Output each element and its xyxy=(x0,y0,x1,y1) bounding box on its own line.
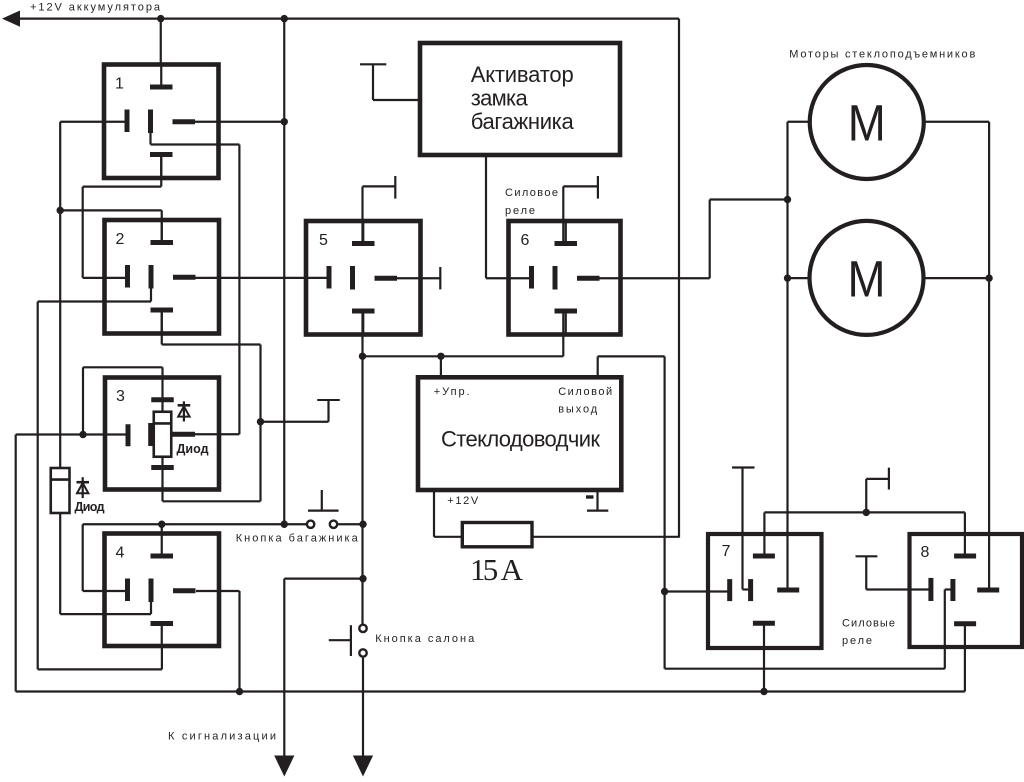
wire relay4 87a stub xyxy=(150,602,152,615)
svg-text:3: 3 xyxy=(116,388,125,405)
relay3 top pin bar xyxy=(151,378,174,400)
wire +12V top rail xyxy=(8,18,679,20)
svg-text:+Упр.: +Упр. xyxy=(434,386,470,398)
junction motor bus relay6 feed xyxy=(784,196,791,203)
wire relay5 coil- down to buttons and alarm xyxy=(361,310,363,624)
wire relay6 pin87 to motors xyxy=(600,200,788,279)
trunk button actuator xyxy=(308,490,339,511)
wire power output to relay7/8 xyxy=(598,356,951,668)
label К сигнализации xyxy=(168,731,276,743)
motor M2 xyxy=(810,221,924,335)
label Силовые реле xyxy=(842,618,895,648)
diode symbol inside relay 3 xyxy=(178,401,191,421)
junction relay4 coil+ xyxy=(158,521,165,528)
wire relay4 pin87 down to signal wire xyxy=(196,591,240,692)
relay5 right terminal xyxy=(397,267,440,289)
salon button contacts xyxy=(359,625,366,657)
wire relay6 coil- stem xyxy=(562,310,564,356)
svg-text:Стеклодоводчик: Стеклодоводчик xyxy=(441,427,600,452)
svg-text:Активатор: Активатор xyxy=(471,62,574,87)
wire relay3 pin30 horizontal xyxy=(16,433,128,435)
wire salon button down xyxy=(362,658,364,757)
wire left bus down from relay1 xyxy=(59,122,61,469)
relay7 top pin xyxy=(753,512,775,556)
junction relay3 left wire xyxy=(79,431,86,438)
junction relay5 coil- control net xyxy=(359,353,366,360)
wire motor left bus xyxy=(788,122,810,590)
junction power output relay7 pin xyxy=(661,588,668,595)
svg-text:6: 6 xyxy=(521,232,530,249)
wire fuse to +12V rail xyxy=(532,536,679,538)
svg-text:Силовое: Силовое xyxy=(505,187,558,199)
arrow to alarm 1 xyxy=(274,756,294,777)
svg-text:8: 8 xyxy=(921,544,930,561)
relay5 top terminal xyxy=(363,176,396,243)
junction control of power relays xyxy=(863,509,870,516)
svg-text:4: 4 xyxy=(116,545,125,562)
svg-text:Кнопка багажника: Кнопка багажника xyxy=(236,533,359,545)
svg-text:5: 5 xyxy=(319,232,328,249)
relay7 middle stub to terminal xyxy=(732,468,755,590)
svg-text:+12V аккумулятора: +12V аккумулятора xyxy=(30,2,161,14)
wire alarm drop 1 xyxy=(283,579,285,757)
svg-text:М: М xyxy=(848,95,886,152)
wire relay2 pin87 to relay5 pin30 xyxy=(196,277,330,279)
relay 7 xyxy=(708,534,822,648)
svg-text:Диод: Диод xyxy=(75,500,105,514)
label minus xyxy=(586,495,594,498)
label Моторы стеклоподъемников xyxy=(789,49,975,61)
relay 3 xyxy=(105,378,219,490)
label Кнопка салона xyxy=(375,633,475,645)
label Силовое реле xyxy=(505,187,558,217)
label Диод (D2) xyxy=(75,500,105,514)
salon button actuator xyxy=(329,625,351,656)
label +Упр. xyxy=(434,386,470,398)
wire +Upr stem xyxy=(440,356,442,378)
junction left bus to relay2 coil+ xyxy=(57,207,64,214)
svg-text:замка: замка xyxy=(471,86,529,111)
wire relay1 pin87 right to x284 xyxy=(195,121,284,123)
arrow to alarm 2 xyxy=(353,756,373,777)
relay6 top terminal xyxy=(563,176,598,243)
terminal feeding relay8 pin30 xyxy=(856,556,932,589)
wire long bottom net y691 xyxy=(16,690,965,692)
svg-text:7: 7 xyxy=(722,543,731,560)
relay8 left pin bar xyxy=(928,578,933,601)
junction terminal branch on relay2-relay3 wire xyxy=(257,418,264,425)
relay8 middle bar xyxy=(950,579,955,601)
relay3 bottom pin bar xyxy=(151,468,174,490)
svg-text:15 А: 15 А xyxy=(470,552,524,587)
junction relay1 pin87 at x284 xyxy=(281,118,288,125)
label Активатор замка багажника xyxy=(471,62,575,134)
terminal stub near trunk button xyxy=(261,400,340,422)
diode D2 symbol xyxy=(77,477,90,498)
svg-text:Силовые: Силовые xyxy=(842,618,895,630)
label Силовой выход xyxy=(558,386,612,416)
relay8 right pin xyxy=(977,588,999,593)
wire trunk-button feed / relay4 coil+ xyxy=(83,524,308,591)
trunk lock activator box xyxy=(420,43,620,155)
junction x284 line at trunk button xyxy=(281,521,288,528)
junction alarm branch xyxy=(359,575,366,582)
svg-text:Моторы стеклоподъемников: Моторы стеклоподъемников xyxy=(789,49,975,61)
wire relay2 coil- to relay3 coil- xyxy=(162,310,261,501)
wire motor right bus xyxy=(924,122,990,590)
wire +12V rail corner down x679 xyxy=(678,19,680,538)
terminal above relay8 xyxy=(866,468,889,513)
wire relay2 87a long loop to relay4 coil- xyxy=(38,289,162,670)
wire alarm branch left xyxy=(284,577,363,579)
wire relay3 pin87 to relay1 87a xyxy=(195,433,239,435)
junction motor2 left xyxy=(784,274,791,281)
relay 4 xyxy=(105,534,220,647)
junction on rail at relay1 top xyxy=(157,15,164,22)
junction on rail at x284 xyxy=(281,15,288,22)
wire rail to relay 1 pin 86 xyxy=(160,19,162,66)
relay 6 xyxy=(509,221,621,335)
label 15 А xyxy=(470,552,524,587)
label Кнопка багажника xyxy=(236,533,359,545)
relay3 middle bar xyxy=(148,423,153,446)
relay7 middle bar xyxy=(748,579,753,601)
svg-text:Диод: Диод xyxy=(177,442,209,456)
wire relay7 top to relay8 top xyxy=(764,511,965,513)
node +12V battery rail arrow xyxy=(2,11,20,27)
wire control net to relay6 coil- xyxy=(363,355,564,357)
relay8 bottom pin xyxy=(954,624,976,692)
diode body inside relay 3 xyxy=(154,400,172,468)
relay 2 xyxy=(105,220,220,334)
wire relay3 top from left bus branch xyxy=(83,367,163,434)
relay8 top pin xyxy=(954,512,976,556)
svg-text:М: М xyxy=(848,251,886,308)
diode D2 body xyxy=(51,468,70,513)
relay7 left pin bar xyxy=(727,579,732,601)
wire relay1 coil- down-left to relay2 coil+ xyxy=(83,155,162,278)
label +12V (closer) xyxy=(447,495,479,507)
junction trunk button right xyxy=(359,521,366,528)
junction relay4 pin87 on signal wire xyxy=(236,688,243,695)
svg-text:2: 2 xyxy=(116,231,125,248)
wire +12V drop x284 to trunk button xyxy=(283,19,285,525)
wire diode D2 to relay4 87a xyxy=(60,513,151,614)
svg-text:реле: реле xyxy=(842,635,872,647)
svg-text:+12V: +12V xyxy=(447,495,479,507)
wire relay2 coil+ from left bus xyxy=(60,210,162,243)
closer minus terminal xyxy=(587,490,608,511)
label Стеклодоводчик xyxy=(441,427,600,452)
wire relay4 coil+ stem xyxy=(161,524,163,535)
fuse 15A xyxy=(462,523,532,547)
wire relay3 left end corner down xyxy=(15,435,17,692)
trunk button contacts xyxy=(307,521,363,528)
relay7 right pin xyxy=(777,588,799,593)
junction relay7 bottom on long wire xyxy=(760,688,767,695)
relay3 left pin bar xyxy=(126,424,131,446)
junction motor2 right xyxy=(985,274,992,281)
activator left terminal xyxy=(360,64,420,100)
wire closer +12V pin to fuse xyxy=(434,490,462,537)
relay 1 xyxy=(104,65,219,179)
relay 8 xyxy=(910,534,1023,647)
wire activator to relay6 pin30 xyxy=(486,155,532,278)
relay3 right pin bar xyxy=(173,432,196,437)
label +12V аккумулятора xyxy=(30,2,161,14)
label Диод inside relay 3 xyxy=(177,442,209,456)
junction window-closer +Upr xyxy=(437,353,444,360)
wire relay1 pin30 left to bus xyxy=(60,121,127,123)
window closer box Стеклодоводчик xyxy=(418,377,621,490)
svg-text:реле: реле xyxy=(505,205,535,217)
svg-text:1: 1 xyxy=(115,76,124,93)
motor M1 xyxy=(810,65,924,179)
wire relay1 87a xyxy=(151,133,240,435)
relay7 bottom pin xyxy=(753,623,775,691)
relay 5 xyxy=(306,221,421,335)
svg-text:багажника: багажника xyxy=(471,109,575,134)
